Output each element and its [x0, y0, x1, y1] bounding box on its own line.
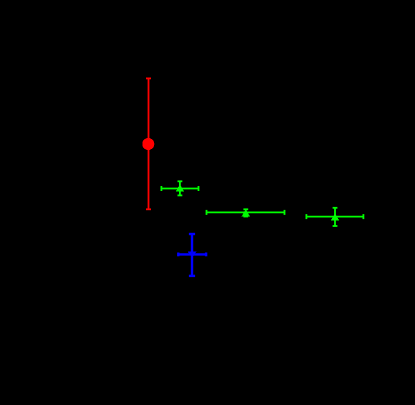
green data point P2	[161, 181, 198, 195]
green marker: triangle up	[243, 210, 249, 216]
blue data point P5	[178, 234, 206, 276]
blue marker: triangle down	[189, 252, 196, 257]
green data point P3	[207, 209, 285, 216]
red data point P1: vertical error bar	[146, 78, 151, 209]
red marker: full circle	[142, 138, 154, 150]
green marker: triangle up	[332, 214, 338, 220]
green data point P4	[306, 208, 363, 226]
green marker: triangle up	[177, 186, 183, 192]
